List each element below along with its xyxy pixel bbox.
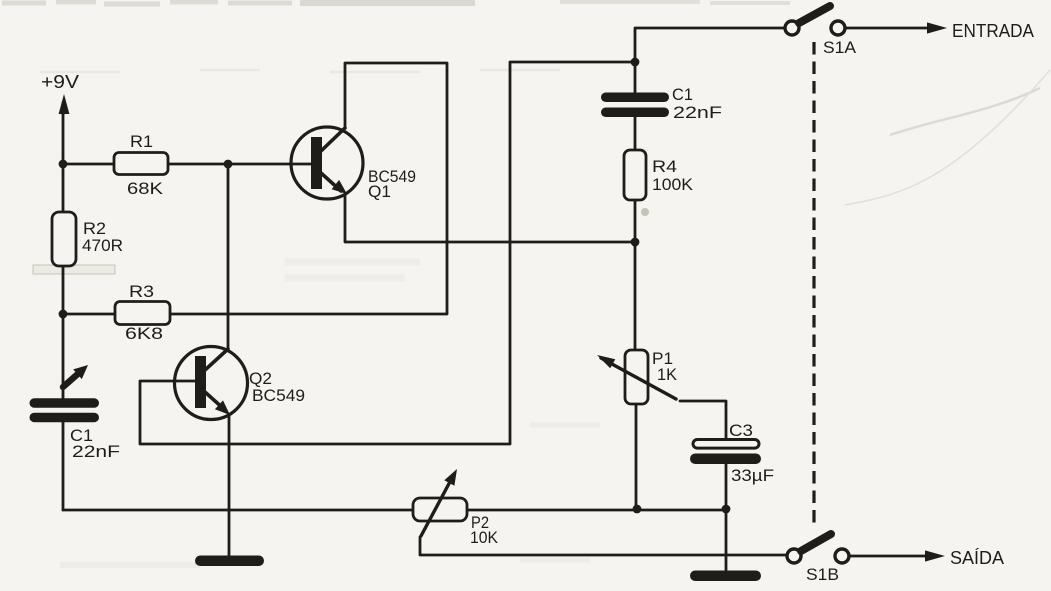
svg-text:68K: 68K [127,179,164,198]
svg-text:R4: R4 [652,157,677,176]
svg-text:6K8: 6K8 [125,324,163,343]
svg-text:ENTRADA: ENTRADA [952,20,1035,41]
svg-text:R1: R1 [130,132,153,151]
svg-text:100K: 100K [652,175,694,194]
svg-text:C3: C3 [729,421,753,440]
svg-text:22nF: 22nF [72,442,120,461]
svg-text:SAÍDA: SAÍDA [950,547,1005,568]
svg-text:R3: R3 [129,282,154,301]
svg-text:+9V: +9V [41,71,80,92]
svg-text:S1A: S1A [823,38,857,57]
svg-text:1K: 1K [657,365,678,384]
svg-text:10K: 10K [470,528,499,547]
svg-text:BC549: BC549 [252,386,305,405]
svg-text:S1B: S1B [806,565,839,584]
svg-text:33µF: 33µF [731,466,774,485]
svg-text:C1: C1 [672,85,693,104]
svg-text:470R: 470R [82,236,123,255]
svg-text:22nF: 22nF [673,103,722,122]
svg-text:Q1: Q1 [368,182,391,201]
